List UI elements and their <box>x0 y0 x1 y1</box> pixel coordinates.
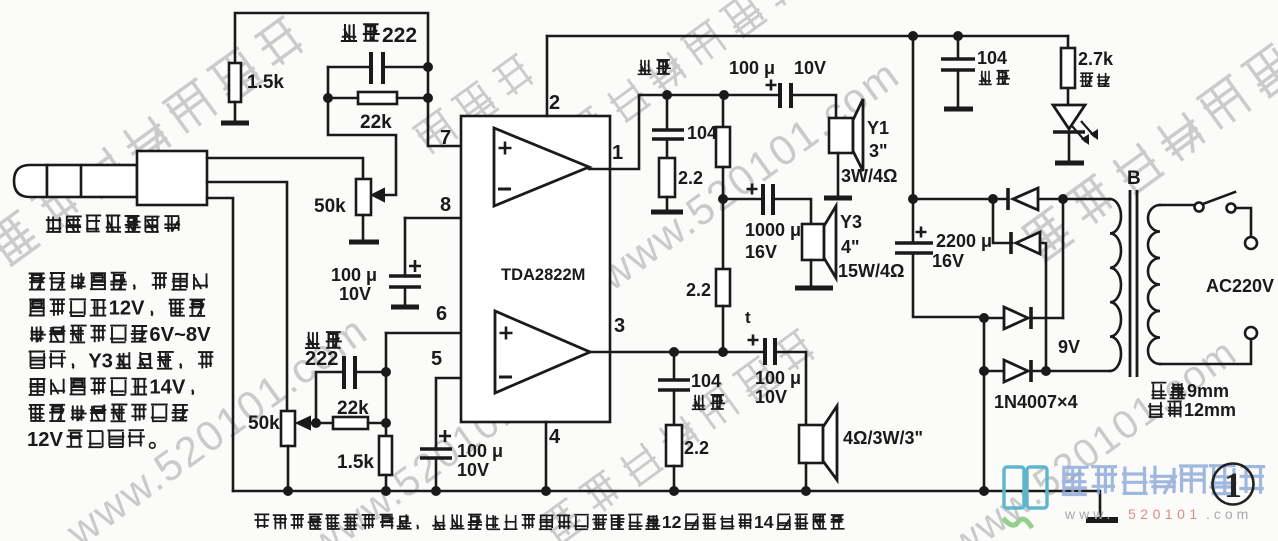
svg-text:22k: 22k <box>360 112 392 133</box>
watermark row 9 (bottom-center cjk) <box>539 328 819 541</box>
resistor 2.2 (zobel 1) <box>659 158 675 197</box>
wire node L to 100u-3 cap <box>723 351 763 354</box>
wire node B down to wiper path <box>328 67 396 195</box>
paragraph line 5 <box>29 379 46 395</box>
node 1.5k2-rail <box>381 486 391 496</box>
wire 1.5k-2 to rail <box>385 475 388 491</box>
wire D1 right to secondary top <box>1063 198 1110 201</box>
wire cap to speaker Y1 <box>793 95 836 118</box>
wire pin 8 from cap to minus input <box>405 190 495 218</box>
AC terminal bottom circle <box>1245 327 1257 339</box>
svg-text:222: 222 <box>305 348 338 370</box>
svg-text:1: 1 <box>1224 465 1242 505</box>
watermark row 7 (right url) <box>941 330 1246 541</box>
svg-text:222: 222 <box>382 24 417 47</box>
figure number circled 1 <box>1213 464 1254 505</box>
potentiometer 50k (bottom) body <box>281 411 295 446</box>
svg-text:9mm: 9mm <box>1187 381 1229 401</box>
transformer primary winding <box>1148 205 1160 364</box>
svg-text:1N4007×4: 1N4007×4 <box>994 392 1078 412</box>
capacitor 104 ceramic plates <box>941 57 975 60</box>
capacitor 100u 10V (pin8) plates <box>389 274 421 277</box>
diode D3 (points right) <box>1004 307 1028 329</box>
wire cap to speaker Y3 <box>775 199 811 224</box>
speaker3 horn <box>823 406 837 480</box>
wire 104tr to ground <box>957 70 960 107</box>
wire pin 6 <box>386 332 495 335</box>
ground bar under Y1 <box>824 196 852 201</box>
watermark row 1 (top-left) <box>0 15 308 266</box>
node B (left of 22k) <box>323 93 333 103</box>
wire bridge to rail <box>983 371 986 491</box>
svg-text:Y1: Y1 <box>867 118 889 138</box>
svg-text:2.2: 2.2 <box>686 280 711 300</box>
svg-text:3": 3" <box>869 141 888 161</box>
speaker Y1 driver box <box>829 118 853 153</box>
watermark row 10 (upper-middle cjk) <box>412 53 537 157</box>
watermark row 2 (left url) <box>57 306 376 541</box>
wire node A down to 22k <box>427 67 430 98</box>
wire pin8 cap to ground <box>404 287 407 305</box>
wire riser +V <box>912 36 915 199</box>
wire D3-D4 left link <box>983 318 986 371</box>
svg-text:12V: 12V <box>109 298 145 320</box>
svg-text:Y3: Y3 <box>840 212 862 232</box>
label stack thickness (cjk) <box>1148 402 1163 417</box>
svg-text:3: 3 <box>614 315 625 337</box>
node L (pin3/2.2) <box>718 347 728 357</box>
wire D3 right <box>1033 317 1063 320</box>
svg-text:14: 14 <box>754 512 774 532</box>
wire node G to node H <box>667 94 724 97</box>
wire 22k left <box>328 97 358 100</box>
ground symbol under 1.5k <box>221 121 249 126</box>
logo site name (cjk blue) <box>1062 466 1089 494</box>
node D4 left <box>979 366 989 376</box>
node F (22k right) <box>381 418 391 428</box>
wiper arrow of pot 50k (top) <box>372 189 384 201</box>
svg-text:50k: 50k <box>248 413 280 434</box>
ground symbol at rail end <box>1086 517 1118 523</box>
svg-text:14V: 14V <box>149 377 185 399</box>
diode D4 (points right) <box>1004 360 1028 382</box>
plus sign Y1 coupling <box>766 80 777 91</box>
op-amp U1b triangle <box>495 311 590 393</box>
svg-text:520101: 520101 <box>1128 506 1202 522</box>
wire node J to 1000u cap <box>723 198 760 201</box>
svg-text:2: 2 <box>549 92 560 114</box>
wire AC bottom terminal to primary <box>1160 339 1251 364</box>
label tongue width (cjk) <box>1151 383 1166 399</box>
svg-text:www.: www. <box>1064 506 1114 522</box>
capacitor 104 (zobel 1) <box>652 128 684 131</box>
node C (right of 22k) <box>423 93 433 103</box>
wire pin 1 output <box>589 95 667 169</box>
node bridge-rail <box>979 486 989 496</box>
logo book icon <box>1004 467 1024 508</box>
speaker Y1 horn <box>853 99 863 171</box>
wire Y3 to ground <box>810 260 813 286</box>
svg-text:12V: 12V <box>27 429 63 451</box>
speaker Y3 horn <box>824 206 836 278</box>
node pot2-rail <box>283 486 293 496</box>
node D (wiper/22k/cap222) <box>311 418 321 428</box>
capacitor 100u 10V (pin5) plates <box>420 447 452 450</box>
paragraph line 4 <box>29 352 46 369</box>
wire D3 left <box>984 317 1004 320</box>
paragraph line 3 <box>30 326 46 342</box>
svg-text:10V: 10V <box>755 387 787 407</box>
plus of U1a <box>499 142 512 155</box>
wire node G to cap 104 <box>666 95 669 128</box>
diode D4 cathode bar <box>1029 360 1033 382</box>
plus sign Y3 coupling <box>747 184 758 195</box>
wire zobel2 to rail <box>673 466 676 491</box>
node K (pin3 zobel) <box>669 347 679 357</box>
svg-text:104: 104 <box>977 48 1007 68</box>
wire LED to ground <box>1068 132 1071 161</box>
diode D1 (top, points left) <box>1013 188 1038 210</box>
op-amp U1a triangle <box>494 128 589 206</box>
wire pin 5 to cap 100u <box>436 378 495 447</box>
svg-text:5: 5 <box>431 348 442 370</box>
minus of U1a <box>498 188 511 191</box>
ground symbol under LED <box>1055 161 1084 166</box>
resistor 2.7k <box>1067 36 1070 48</box>
resistor 1.5k (bottom) <box>379 436 392 475</box>
svg-text:8: 8 <box>440 194 451 216</box>
svg-text:4Ω/3W/3": 4Ω/3W/3" <box>843 428 923 448</box>
wire D4 right to winding <box>1033 370 1110 373</box>
capacitor 104 ceramic (top right) stem <box>957 36 960 57</box>
headphone plug shaft <box>14 165 47 197</box>
resistor 2.2 (zobel 2) <box>666 425 682 466</box>
wire pin 4 to ground rail <box>545 422 548 491</box>
watermark row 3 (center cjk) <box>526 0 806 181</box>
resistor 22k (top feedback) <box>358 92 397 104</box>
watermark row 5 (lower-center url) <box>301 330 606 541</box>
svg-text:100 μ: 100 μ <box>755 368 801 388</box>
wire node K to node L <box>674 351 723 354</box>
wire 22k right <box>397 97 428 100</box>
wire D1-D2 left link <box>993 199 1012 243</box>
minus of U1b <box>499 376 512 379</box>
svg-text:2200 μ: 2200 μ <box>936 231 992 251</box>
wire node H to 100u cap <box>724 94 778 97</box>
ground symbol under 104tr <box>944 107 973 112</box>
paragraph line 2 <box>29 300 45 316</box>
wire D4 left stub <box>984 370 1004 373</box>
watermark row 4 (center url) <box>589 50 908 300</box>
resistor 22k (bottom) <box>333 417 368 429</box>
switch S1 pole <box>1195 203 1204 212</box>
wire wiper node to 22k <box>310 422 333 425</box>
svg-text:Y3: Y3 <box>88 350 113 372</box>
label ceramic (cjk) bottom <box>305 332 320 348</box>
svg-text:1000 μ: 1000 μ <box>745 220 801 240</box>
wire jack tip to pot 50k top <box>207 158 363 179</box>
ground bar under Y3 <box>795 286 833 291</box>
capacitor 2200u 16V stem <box>912 199 915 241</box>
node D1 right <box>1058 194 1068 204</box>
resistor (unlabeled) node H to node J <box>722 95 725 127</box>
svg-text:50k: 50k <box>314 196 346 217</box>
svg-text:TDA2822M: TDA2822M <box>501 266 585 284</box>
svg-text:2.2: 2.2 <box>678 168 703 188</box>
op-amp U1 IC box TDA2822M <box>461 116 610 422</box>
svg-text:104: 104 <box>691 371 721 391</box>
transformer secondary winding <box>1110 199 1121 371</box>
potentiometer 50k (top) body <box>356 179 371 215</box>
capacitor 1000u 16V (Y3 coupling) <box>761 184 765 215</box>
svg-text:4: 4 <box>549 426 561 448</box>
LED D5 cathode bar <box>1053 130 1085 134</box>
wire node P to bridge D1 <box>913 198 993 201</box>
node D1 left <box>988 194 998 204</box>
svg-text:6V~8V: 6V~8V <box>149 324 211 346</box>
svg-text:104: 104 <box>687 123 717 143</box>
node P (+V / bridge top-left) <box>908 194 918 204</box>
wire node K down to cap 104-2 <box>673 352 676 378</box>
wire R2.2 to ground <box>666 197 669 210</box>
wire node D up to cap 222 <box>316 372 342 423</box>
wire cap to speaker3 <box>777 352 806 425</box>
node speaker3-rail <box>801 486 811 496</box>
node D4 right <box>1041 366 1051 376</box>
ground rail (bottom) <box>233 491 1100 518</box>
node A (cap/rail junction) <box>423 62 433 72</box>
wire pin8 cap stem <box>404 218 407 274</box>
watermark row 6 (top-right) <box>1019 11 1278 262</box>
wire cap left to node B <box>328 66 369 69</box>
svg-text:2.2: 2.2 <box>684 438 709 458</box>
caption text (cjk) <box>254 514 269 528</box>
node M (rail/+V riser) <box>908 31 918 41</box>
AC terminal top circle <box>1245 237 1257 249</box>
wire cap104 to R2.2 <box>666 139 669 158</box>
svg-text:100 μ: 100 μ <box>331 265 377 285</box>
svg-text:16V: 16V <box>932 251 964 271</box>
diode D2 (points left) <box>1016 232 1040 254</box>
diode D2 cathode bar <box>1009 232 1013 254</box>
paragraph line 1 <box>29 274 46 290</box>
paragraph line 6 <box>29 404 45 421</box>
node J (Y3 coupling) <box>718 194 728 204</box>
plus of U1b <box>500 327 513 340</box>
ground symbol under pot 50k top <box>349 240 379 245</box>
switch S1 lever <box>1203 192 1235 204</box>
wire pin 3 output <box>590 351 674 354</box>
capacitor 222 (top feedback) <box>369 52 373 84</box>
node 100u2-rail <box>431 486 441 496</box>
wire pot2 bottom to rail <box>287 446 290 491</box>
svg-text:AC220V: AC220V <box>1206 276 1274 296</box>
node pin4-rail <box>541 486 551 496</box>
wire cap222-2 right to node E <box>357 371 386 374</box>
svg-text:2.7k: 2.7k <box>1078 49 1114 69</box>
svg-text:12: 12 <box>662 512 682 532</box>
label ceramic cjk top-right <box>979 71 992 85</box>
svg-text:6: 6 <box>436 303 447 325</box>
speaker (4ohm/3W/3in) driver box <box>799 425 823 463</box>
node G (pin1 zobel) <box>662 90 672 100</box>
svg-text:22k: 22k <box>337 398 369 419</box>
plus sign 2200u <box>916 227 927 238</box>
wire cap104-2 to R2.2-2 <box>673 390 676 425</box>
plus sign speaker3 coupling <box>748 335 759 346</box>
wire speaker3 to rail <box>805 463 808 491</box>
capacitor 222 (bottom feedback) <box>342 356 346 389</box>
wire top-left rail from R 1.5k to node A <box>235 13 428 67</box>
switch S1 throw <box>1227 204 1236 213</box>
wire jack sleeve to ground rail <box>207 198 233 491</box>
plus sign of 100u pin5 <box>439 430 451 442</box>
label ceramic (cjk) pin1 <box>638 60 652 75</box>
wire 2200u bottom to bridge lower-left <box>913 253 984 317</box>
wire Y1 to ground <box>837 153 840 196</box>
svg-text:7: 7 <box>440 127 451 149</box>
speaker Y3 driver box <box>802 224 824 260</box>
svg-text:100 μ: 100 μ <box>729 58 775 78</box>
wire node E to pin6 and down through F <box>385 333 388 436</box>
capacitor 104 (zobel 2) <box>658 378 690 381</box>
wire 2.7k to LED <box>1067 88 1070 105</box>
plus sign of 100u pin8 <box>409 260 421 272</box>
wire pot top stem <box>362 215 365 240</box>
node zobel2-rail <box>669 486 679 496</box>
diode D1 cathode bar <box>1006 188 1010 210</box>
diode D3 cathode bar <box>1029 307 1033 329</box>
node E (cap right) <box>381 367 391 377</box>
svg-text:.com: .com <box>1206 506 1252 522</box>
label dual-channel headphone plug (cjk) <box>46 216 62 232</box>
wire primary top to switch <box>1160 204 1193 207</box>
svg-text:4": 4" <box>841 237 860 257</box>
svg-text:10V: 10V <box>794 58 826 78</box>
diode D1 wires <box>993 198 1063 201</box>
node H (coupling junction) <box>719 90 729 100</box>
ground symbol under pin8 cap <box>391 305 419 310</box>
svg-text:3W/4Ω: 3W/4Ω <box>841 166 897 186</box>
node N (rail/104 cap) <box>953 31 963 41</box>
wire jack ring to pot2 top <box>207 182 287 411</box>
capacitor 2200u 16V plates <box>895 241 933 245</box>
transformer core <box>1129 190 1132 377</box>
resistor 2.2 (node J to pin3 line) <box>722 199 725 269</box>
svg-text:1.5k: 1.5k <box>247 72 284 93</box>
wire 100u-2 to rail <box>435 458 438 491</box>
svg-text:100 μ: 100 μ <box>457 441 503 461</box>
wire D1 right down to D3 <box>1062 199 1065 318</box>
LED D5 triangle <box>1053 105 1085 129</box>
svg-text:10V: 10V <box>339 284 371 304</box>
ground symbol zobel1 <box>651 210 683 215</box>
capacitor 100u 10V (Y1 coupling) <box>778 83 782 108</box>
wire pin 2 to top rail <box>546 36 549 116</box>
svg-text:9V: 9V <box>1058 337 1080 357</box>
svg-text:15W/4Ω: 15W/4Ω <box>838 261 904 281</box>
capacitor 100u 10V (speaker3 coupling) <box>763 338 767 365</box>
resistor 1.5k (top-left) <box>229 63 241 102</box>
wiper arrow pot2 <box>297 417 310 429</box>
node bridge lower-left (D3) <box>979 313 989 323</box>
LED arrows <box>1072 121 1095 142</box>
svg-text:t: t <box>745 308 751 327</box>
label ceramic cjk zobel2 <box>692 395 706 410</box>
plug segment separator <box>80 165 83 197</box>
label ceramic 222 (cjk) <box>341 24 357 41</box>
wire D2 right to D4 right <box>1040 243 1046 371</box>
wire switch to AC terminal top <box>1236 208 1251 236</box>
svg-text:12mm: 12mm <box>1184 400 1236 420</box>
svg-text:16V: 16V <box>745 242 777 262</box>
wire cap right to node A <box>385 66 428 69</box>
svg-text:10V: 10V <box>457 460 489 480</box>
svg-text:1: 1 <box>612 142 623 164</box>
wire 22k-2 right to node F <box>368 422 386 425</box>
wire top supply rail from pin2 to LED resistor <box>547 35 1068 38</box>
wire node C down to pin 7 <box>428 98 494 146</box>
wire R1.5k bottom to ground <box>234 102 237 121</box>
label green (cjk) <box>1080 73 1093 87</box>
svg-text:B: B <box>1127 168 1141 189</box>
headphone jack body <box>137 151 207 205</box>
svg-text:1.5k: 1.5k <box>337 452 374 473</box>
